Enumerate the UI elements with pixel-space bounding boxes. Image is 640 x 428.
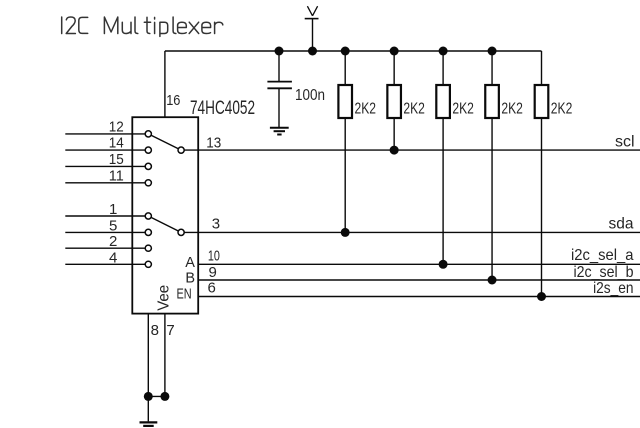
svg-text:13: 13 xyxy=(206,134,221,151)
svg-text:i2c_sel_b: i2c_sel_b xyxy=(574,264,634,281)
svg-text:12: 12 xyxy=(109,119,124,136)
svg-text:15: 15 xyxy=(109,151,124,168)
svg-text:scl: scl xyxy=(615,133,635,150)
svg-text:3: 3 xyxy=(212,216,220,233)
svg-text:i2s_en: i2s_en xyxy=(593,280,633,297)
svg-text:B: B xyxy=(185,271,195,287)
svg-text:EN: EN xyxy=(177,287,192,303)
svg-text:Vee: Vee xyxy=(156,285,173,311)
svg-text:16: 16 xyxy=(166,92,180,109)
svg-text:14: 14 xyxy=(109,135,124,152)
svg-text:sda: sda xyxy=(609,215,634,232)
svg-text:5: 5 xyxy=(109,217,117,234)
svg-text:2: 2 xyxy=(109,233,117,250)
svg-text:7: 7 xyxy=(166,322,174,339)
svg-text:i2c_sel_a: i2c_sel_a xyxy=(571,247,634,264)
svg-text:100n: 100n xyxy=(295,87,325,104)
svg-text:74HC4052: 74HC4052 xyxy=(190,98,255,119)
svg-text:A: A xyxy=(185,255,195,271)
svg-text:11: 11 xyxy=(109,167,124,184)
svg-text:4: 4 xyxy=(109,249,117,266)
svg-text:2K2: 2K2 xyxy=(355,101,377,118)
svg-text:2K2: 2K2 xyxy=(501,101,523,118)
svg-text:10: 10 xyxy=(208,248,220,265)
svg-text:8: 8 xyxy=(151,322,159,339)
svg-text:2K2: 2K2 xyxy=(551,101,573,118)
svg-text:2K2: 2K2 xyxy=(403,101,425,118)
svg-text:6: 6 xyxy=(208,280,216,297)
svg-text:1: 1 xyxy=(109,201,117,218)
svg-text:2K2: 2K2 xyxy=(452,101,474,118)
svg-text:9: 9 xyxy=(209,264,217,281)
